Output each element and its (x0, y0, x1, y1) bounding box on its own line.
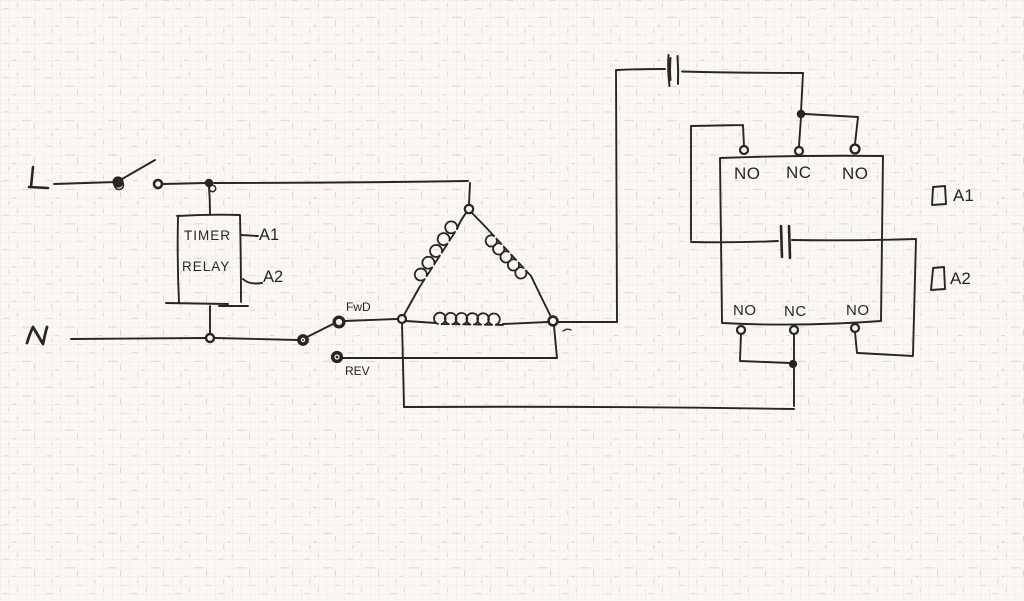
triangle left vertex node (398, 315, 406, 323)
svg-text:NC: NC (786, 163, 812, 182)
wire top vertex up (469, 183, 470, 205)
small scribble mark (563, 329, 571, 331)
wire timer relay to N line (209, 306, 211, 333)
wire left NO top loop (691, 125, 744, 240)
bottom long wire (404, 407, 794, 409)
riser to top capacitor (616, 70, 617, 322)
wire to capacitor C2 (691, 241, 778, 242)
NC top terminal (795, 147, 803, 155)
junction dot above NC (798, 111, 805, 118)
REV terminal (332, 352, 341, 361)
capacitor C2 plates (781, 226, 790, 258)
motor winding right (coil) (472, 213, 494, 236)
motor winding bottom (coil) (406, 321, 436, 323)
NC bottom terminal (790, 326, 798, 334)
wire junction to right NO top (805, 114, 858, 144)
wire node to triangle top (214, 181, 468, 183)
node junction on N line (206, 334, 214, 342)
wire down right side (855, 239, 916, 356)
svg-text:REV: REV (345, 364, 370, 378)
svg-text:A2: A2 (263, 268, 283, 286)
label N (27, 327, 47, 344)
svg-text:A1: A1 (259, 226, 279, 244)
A2 stub of timer relay (243, 279, 262, 284)
wire right vertex to riser (557, 321, 617, 323)
A1 coil terminal square (932, 186, 946, 205)
A1 stub of timer relay (241, 235, 258, 236)
motor winding left (coil) (457, 213, 466, 229)
wire REV to right vertex (342, 326, 557, 358)
wire N line (71, 338, 298, 340)
node junction on L line (206, 180, 213, 187)
timer relay box (166, 215, 248, 306)
wire FWD to left vertex (344, 319, 397, 321)
svg-text:NO: NO (734, 164, 761, 183)
right NO bottom terminal (851, 324, 859, 332)
svg-text:A1: A1 (953, 186, 974, 205)
wire C1 to relay (682, 72, 803, 74)
svg-text:NO: NO (842, 164, 869, 183)
wire NC bottom down to bottom wire (793, 334, 795, 406)
left NO bottom terminal (737, 326, 745, 334)
label L (29, 167, 48, 188)
switch SW1 pivot terminal (114, 178, 123, 187)
right NO top terminal (851, 145, 860, 154)
svg-text:NO: NO (846, 302, 870, 319)
wire left vertex down (402, 323, 404, 406)
wire C2 to right (792, 239, 916, 240)
left NO top terminal (740, 146, 748, 154)
relay box K1 (720, 156, 883, 325)
svg-text:A2: A2 (950, 269, 971, 288)
capacitor C1 plates (668, 55, 678, 86)
FWD terminal (334, 317, 344, 327)
svg-text:FwD: FwD (346, 300, 371, 314)
wire L to switch (54, 182, 116, 184)
junction dot below NC (790, 361, 797, 368)
wire switch to node (163, 183, 206, 184)
wire junction to NC top (799, 117, 801, 146)
triangle right vertex node (549, 317, 558, 326)
switch SW2 pivot terminal (298, 335, 307, 344)
svg-text:NO: NO (733, 302, 757, 319)
wire down to junction (801, 73, 803, 112)
switch SW1 blade (122, 160, 155, 179)
wire left NO bottom to junction (740, 334, 790, 363)
svg-text:RELAY: RELAY (182, 259, 230, 274)
triangle top vertex node (465, 205, 473, 213)
wire down to timer relay (209, 187, 210, 214)
switch SW2 blade (307, 324, 333, 337)
wire to capacitor C1 (617, 69, 665, 70)
switch SW1 contact terminal (154, 180, 162, 188)
svg-text:NC: NC (784, 303, 807, 320)
svg-text:TIMER: TIMER (184, 228, 231, 243)
A2 coil terminal square (931, 267, 945, 290)
